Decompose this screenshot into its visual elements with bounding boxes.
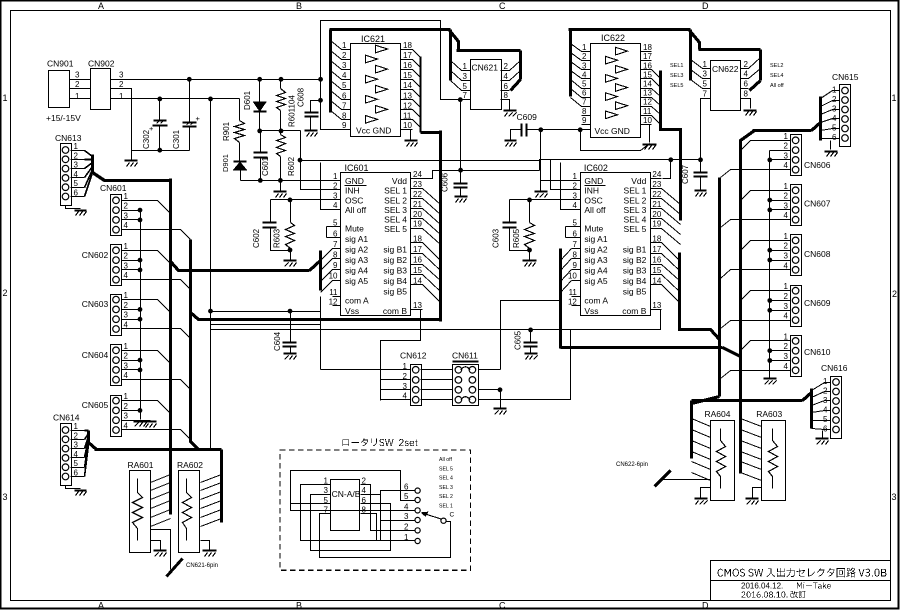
node R603 bottom [288, 248, 293, 253]
wire CN601 pin3 [133, 219, 141, 221]
svg-text:19: 19 [413, 220, 422, 229]
svg-text:SEL 4: SEL 4 [624, 215, 647, 225]
wire input diagonal [571, 71, 582, 79]
svg-text:3: 3 [582, 61, 587, 70]
wire sigB diagonal IC602 [662, 243, 680, 261]
wire CN609 pin3 [770, 310, 791, 312]
svg-text:SEL 5: SEL 5 [439, 466, 453, 472]
svg-text:RA604: RA604 [705, 409, 731, 419]
svg-text:C301: C301 [172, 129, 181, 149]
wire CN615 stub [821, 129, 833, 131]
wire input diagonal [571, 62, 582, 70]
wire input diagonal [331, 91, 342, 100]
node CN609 pin2 [767, 298, 772, 303]
wire CN612 pin4 [381, 399, 411, 401]
svg-text:4: 4 [124, 371, 129, 380]
wire CN616 stub [812, 383, 825, 391]
wire CN610 pin3 [770, 360, 791, 362]
wire output diagonal [652, 89, 661, 97]
svg-text:C605: C605 [514, 330, 523, 350]
wire SEL diagonal IC602 [662, 199, 681, 215]
wire IC601 comB [381, 310, 421, 401]
wire IC602 OSC [510, 199, 581, 201]
wire SEL diagonal IC601 [423, 229, 441, 245]
wire sigB diagonal IC602 [662, 265, 680, 281]
buffer gate IC622-1 [616, 47, 628, 55]
svg-text:1: 1 [463, 62, 468, 71]
wire CN612 pin1 [321, 369, 411, 371]
wire R602 ground stub [280, 181, 282, 191]
wire CN615 feed [753, 129, 812, 132]
node CN603 pin2 [138, 307, 143, 312]
wire SEL diagonal IC601 [423, 209, 441, 225]
ground 0V [125, 159, 138, 161]
svg-text:5: 5 [823, 415, 828, 424]
wire CN609 pin4 from bus [731, 320, 791, 322]
wire SEL diagonal IC601 [423, 199, 441, 215]
svg-text:3: 3 [892, 492, 897, 502]
node IC602 Vdd [668, 157, 673, 162]
svg-text:+: + [149, 124, 154, 133]
wire CN615 stub [821, 138, 833, 140]
svg-text:sig B2: sig B2 [623, 255, 647, 265]
node R602 bottom [278, 178, 283, 183]
svg-text:2: 2 [124, 402, 129, 411]
wire RA604 stub [692, 473, 711, 481]
svg-text:CN611: CN611 [452, 351, 478, 361]
svg-text:R605: R605 [512, 228, 521, 248]
svg-text:CN604: CN604 [82, 350, 109, 360]
wire CN622 pin7 down [701, 99, 703, 161]
wire CN901-CN902 row2 [70, 88, 91, 90]
svg-text:19: 19 [652, 220, 661, 229]
wire CN601 pin4 to bus [133, 229, 181, 231]
wire RA601 stub [151, 475, 171, 483]
svg-text:A: A [98, 1, 104, 11]
svg-text:2: 2 [3, 288, 8, 298]
wire rotary pin2 to contact 2 [361, 485, 415, 531]
wire CN612 pin3 [381, 389, 411, 391]
wire CK622-6pin tail [663, 479, 711, 481]
svg-text:RA603: RA603 [756, 409, 782, 419]
buffer gate IC622-2 [606, 56, 618, 64]
svg-text:CN608: CN608 [804, 249, 831, 259]
svg-text:CN615: CN615 [832, 72, 859, 82]
wire sigB diagonal IC601 [423, 243, 441, 261]
svg-text:CN603: CN603 [82, 299, 109, 309]
svg-text:5: 5 [463, 82, 468, 91]
node R605 bottom [527, 248, 532, 253]
wire R603 ground stub [290, 251, 292, 260]
wire sigA diagonal [321, 270, 333, 282]
wire IC602 GND [541, 180, 581, 182]
svg-text:CN606: CN606 [804, 160, 831, 170]
wire CN613 stub [85, 173, 93, 197]
svg-text:3: 3 [342, 61, 347, 70]
svg-text:CN609: CN609 [804, 298, 831, 308]
wire CN615 stub [821, 91, 833, 99]
wire CN604 pin3 [133, 369, 141, 371]
ground C605 [525, 352, 538, 354]
wire IC602 sigA bundle [559, 249, 562, 349]
svg-text:15: 15 [413, 266, 422, 275]
svg-text:D: D [702, 601, 709, 610]
node CN604 pin2 [138, 358, 143, 363]
wire input diagonal [571, 53, 582, 61]
wire +15 rail y79 [111, 79, 321, 81]
svg-text:13: 13 [643, 89, 652, 98]
node cap common [157, 148, 162, 153]
wire CN604 pin4 to bus [133, 379, 181, 381]
wire RA602 stub [201, 519, 222, 527]
node CN602 pin2 [138, 258, 143, 263]
svg-text:Vdd: Vdd [631, 176, 646, 186]
ground RA603 [746, 497, 759, 499]
svg-text:CN622-6pin: CN622-6pin [616, 462, 648, 468]
svg-text:14: 14 [643, 80, 652, 89]
svg-text:7: 7 [582, 98, 587, 107]
cable mark CN622-6pin [655, 471, 671, 487]
wire RA602 stub [201, 492, 222, 500]
wire RA601 ground [151, 541, 161, 550]
wire CN901-CN902 row1 [70, 98, 91, 100]
wire bus1 right [718, 178, 721, 397]
wire input diagonal [331, 111, 342, 120]
svg-text:3: 3 [119, 71, 124, 80]
svg-text:1: 1 [74, 142, 79, 151]
wire rail jog x541 [540, 130, 542, 191]
wire CN616 stub [812, 429, 825, 430]
wire CN603 pin4 to bus [133, 328, 181, 330]
svg-text:CN610: CN610 [804, 347, 831, 357]
svg-text:1: 1 [784, 282, 789, 291]
svg-text:12: 12 [403, 101, 412, 110]
svg-text:SEL 1: SEL 1 [384, 186, 407, 196]
svg-text:13: 13 [403, 91, 412, 100]
wire IC602 Vdd stub [663, 160, 671, 179]
svg-text:21: 21 [413, 200, 422, 209]
node C606 top [458, 168, 463, 173]
wire CN607 pin3 [770, 209, 791, 211]
wire Vcc rail y160 [301, 160, 541, 162]
svg-text:C601: C601 [261, 156, 270, 176]
node C604 top [288, 309, 293, 314]
svg-text:Vss: Vss [345, 306, 359, 316]
wire output diagonal [652, 116, 661, 125]
node D601 bottom [257, 129, 262, 134]
svg-text:2: 2 [744, 60, 749, 69]
svg-text:CN621: CN621 [472, 63, 499, 73]
wire CN616 ground [822, 431, 824, 438]
wire output diagonal [652, 70, 661, 79]
rotary common contact [441, 518, 446, 523]
wire comB long rail [211, 329, 661, 331]
svg-text:11: 11 [329, 288, 338, 297]
svg-text:1: 1 [784, 132, 789, 141]
connector CN601 [111, 195, 122, 236]
wire sigB diagonal IC602 [662, 254, 680, 271]
node C608 branch [318, 98, 323, 103]
svg-text:5: 5 [74, 179, 79, 188]
svg-text:CN612: CN612 [400, 351, 427, 361]
svg-text:Vss: Vss [584, 306, 598, 316]
svg-text:2: 2 [124, 202, 129, 211]
svg-text:2: 2 [892, 289, 897, 299]
node CN606 pin3 [767, 158, 772, 163]
wire SEL diagonal IC602 [662, 189, 681, 205]
buffer gate IC621-6 [366, 95, 378, 103]
wire output diagonal [413, 80, 421, 88]
svg-text:16: 16 [643, 61, 652, 70]
svg-text:D: D [702, 1, 709, 11]
label rotary SW title [342, 438, 417, 446]
svg-text:7: 7 [463, 91, 468, 100]
wire RA601 stub [151, 501, 171, 509]
svg-text:23: 23 [413, 180, 422, 189]
wire CN615 ground [830, 141, 832, 150]
svg-text:6: 6 [333, 229, 338, 238]
svg-text:22: 22 [413, 190, 422, 199]
wire input diagonal [331, 71, 342, 80]
svg-text:sig A2: sig A2 [584, 245, 607, 255]
svg-text:21: 21 [652, 200, 661, 209]
node OSC junction [288, 198, 293, 203]
svg-text:sig B4: sig B4 [383, 276, 407, 286]
svg-text:CN901: CN901 [47, 59, 74, 69]
wire CN602 pin3 [133, 269, 141, 271]
wire CN611 row3 ground [479, 390, 501, 408]
wire CN604 pin2 [133, 360, 141, 362]
svg-text:SEL4: SEL4 [770, 73, 783, 79]
svg-text:sig B4: sig B4 [623, 276, 647, 286]
svg-text:sig A3: sig A3 [345, 255, 368, 265]
wire CN606 pin4 from bus [731, 169, 791, 171]
wire bus2 left vertical [189, 240, 192, 443]
wire sigA diagonal IC602 [561, 259, 572, 271]
node CN603 pin3 [138, 317, 143, 322]
wire SEL diagonal IC601 [423, 219, 441, 235]
wire RA602 stub [201, 501, 222, 509]
svg-text:CN-A/B: CN-A/B [332, 489, 361, 499]
ground right common [764, 377, 777, 379]
svg-text:SEL 2: SEL 2 [384, 196, 407, 206]
wire sigB diagonal IC601 [423, 275, 441, 292]
title block [711, 561, 891, 601]
svg-text:com A: com A [345, 296, 369, 306]
wire RA604 stub [692, 419, 711, 427]
wire CN616 stub [812, 420, 825, 422]
svg-text:CN614: CN614 [53, 413, 80, 423]
svg-text:sig B3: sig B3 [383, 266, 407, 276]
wire CN613 stub [85, 159, 93, 161]
node C601 bottom [258, 178, 263, 183]
svg-text:2: 2 [784, 192, 789, 201]
svg-text:OSC: OSC [345, 196, 363, 206]
svg-text:5: 5 [74, 459, 79, 468]
wire cap commons [132, 150, 190, 152]
node C302 top [157, 97, 162, 102]
svg-text:All off: All off [584, 205, 606, 215]
svg-text:3: 3 [463, 72, 468, 81]
buffer gate IC621-4 [366, 75, 378, 83]
svg-text:13: 13 [413, 301, 422, 310]
node R601 bottom [279, 129, 284, 134]
svg-text:4: 4 [342, 71, 347, 80]
wire IC601 comA Vss [320, 297, 322, 370]
wire CN605 pin4 to bus [133, 429, 181, 431]
wire CN621 left bundle [449, 30, 452, 81]
svg-text:18: 18 [643, 43, 652, 52]
buffer gate IC622-6 [606, 93, 618, 101]
svg-text:D601: D601 [243, 90, 252, 110]
wire SEL diagonal IC602 [662, 219, 681, 235]
wire CN610 pin1 from bus [751, 340, 791, 342]
wire sigB diagonal IC601 [423, 254, 441, 271]
wire output diagonal [652, 98, 661, 106]
node C301 top [187, 77, 192, 82]
wire comA short rail [211, 324, 321, 326]
svg-text:SEL2: SEL2 [770, 63, 783, 69]
svg-text:7: 7 [572, 240, 577, 249]
svg-text:sig B5: sig B5 [623, 287, 647, 297]
wire output diagonal [413, 60, 421, 68]
buffer gate IC621-3 [376, 65, 388, 73]
wire CN608 pin1 from bus [751, 240, 791, 242]
wire input diagonal [331, 41, 342, 50]
wire Vdd vertical x460 [460, 100, 462, 171]
wire input diagonal [571, 44, 582, 52]
wire right common vertical [769, 151, 771, 378]
svg-text:10: 10 [643, 116, 652, 125]
svg-text:5: 5 [703, 80, 708, 89]
wire IC622 input bundle [569, 30, 572, 97]
wire GND rail y180 [241, 180, 341, 182]
ground C603 R605 [523, 259, 537, 261]
wire CN622 pin8 ground [749, 99, 751, 109]
wire CN614 stub [85, 439, 89, 458]
wire CN622 left bundle [689, 30, 692, 81]
svg-text:17: 17 [413, 245, 422, 254]
svg-text:INH: INH [584, 186, 599, 196]
svg-text:R603: R603 [273, 228, 282, 248]
svg-text:sig B2: sig B2 [383, 255, 407, 265]
wire SEL diagonal IC602 [662, 229, 681, 245]
node +15/C608 branch [318, 77, 323, 82]
ground IC622 [643, 143, 657, 145]
wire CN601 pin1 to bus [133, 200, 158, 202]
wire Mute tie IC601 [327, 226, 333, 228]
svg-text:4: 4 [362, 486, 367, 495]
node OSC2 junction [527, 198, 532, 203]
svg-text:2: 2 [74, 431, 79, 440]
wire CN616 stub [812, 392, 825, 398]
svg-text:+15/-15V: +15/-15V [46, 113, 81, 123]
ground CN616 [816, 437, 829, 439]
svg-text:3: 3 [784, 302, 789, 311]
svg-text:sig A4: sig A4 [584, 266, 607, 276]
svg-text:24: 24 [652, 170, 661, 179]
wire bus2 top diagonal [741, 131, 755, 141]
svg-text:1: 1 [892, 93, 897, 103]
wire RA602 stub [201, 510, 222, 518]
svg-text:22: 22 [652, 190, 661, 199]
wire RA603 ground [753, 488, 762, 498]
wire sigB diagonal IC601 [423, 285, 441, 303]
wire RA601 tail [151, 530, 171, 570]
wire -15 rail y99 [111, 98, 240, 100]
buffer gate IC621-5 [376, 85, 388, 93]
node D601 top [257, 77, 262, 82]
wire CN601 pin2 [133, 210, 141, 212]
svg-text:6: 6 [342, 91, 347, 100]
svg-text:6: 6 [832, 133, 837, 142]
svg-text:3: 3 [124, 311, 129, 320]
wire SEL diagonal IC602 [662, 209, 681, 225]
node CN607 pin2 [767, 198, 772, 203]
svg-text:SEL 2: SEL 2 [624, 196, 647, 206]
svg-text:All off: All off [345, 205, 367, 215]
wire comA rail [211, 311, 321, 313]
svg-text:1: 1 [124, 392, 129, 401]
svg-text:4: 4 [504, 72, 509, 81]
wire CN616 bundle [810, 389, 813, 429]
wire RA602 stub [201, 475, 222, 483]
wire +15 feed to CN621 [321, 21, 471, 100]
buffer gate IC622-5 [616, 84, 628, 92]
svg-text:B: B [296, 1, 302, 11]
svg-text:24: 24 [413, 170, 422, 179]
svg-text:sig B5: sig B5 [383, 287, 407, 297]
wire rotary top loop to contact 5 [291, 471, 415, 511]
svg-text:4: 4 [784, 362, 789, 371]
svg-text:1: 1 [342, 41, 347, 50]
ground CN605 [145, 420, 157, 422]
wire RA604 stub [692, 430, 711, 438]
svg-text:16: 16 [652, 256, 661, 265]
wire IC601 OSC [271, 199, 341, 201]
wire sigA diagonal [321, 249, 333, 261]
svg-text:7: 7 [333, 240, 338, 249]
wire input diagonal [571, 98, 582, 107]
wire IC622 pin10 ground [649, 125, 651, 143]
node CN621 pin7 / Vdd [458, 97, 463, 102]
wire CN621 right cable [450, 31, 459, 51]
svg-text:CN616: CN616 [821, 363, 848, 373]
wire RA601 stub [151, 483, 171, 491]
svg-text:8: 8 [582, 107, 587, 116]
svg-text:9: 9 [342, 121, 347, 130]
wire bus1 left vertical [169, 179, 172, 515]
wire thick under IC601 [191, 313, 442, 320]
svg-text:23: 23 [652, 180, 661, 189]
svg-text:17: 17 [643, 52, 652, 61]
svg-text:13: 13 [652, 301, 661, 310]
wire CN613 stub [85, 167, 93, 178]
svg-text:1: 1 [582, 43, 587, 52]
svg-text:1: 1 [823, 377, 828, 386]
svg-text:2016.04.12.: 2016.04.12. [741, 582, 783, 591]
wire CN616 feed [692, 399, 803, 402]
wire CN612-CN611 rows [421, 369, 453, 371]
svg-text:15: 15 [652, 266, 661, 275]
svg-text:C: C [450, 512, 455, 519]
svg-text:SEL1: SEL1 [670, 63, 683, 69]
wire left common vertical [140, 211, 142, 420]
svg-text:3: 3 [3, 492, 8, 502]
svg-text:1: 1 [572, 172, 577, 181]
node Vcc-rail jog [538, 127, 543, 132]
svg-text:R901: R901 [222, 121, 231, 141]
